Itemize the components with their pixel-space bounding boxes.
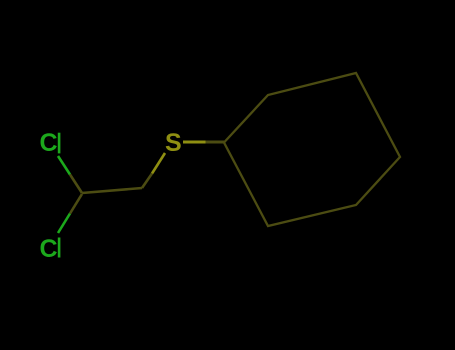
bond S-ring (carbon half) bbox=[206, 141, 225, 144]
svg-text:C: C bbox=[40, 129, 58, 157]
benzene ring (projected hexagon) bbox=[224, 73, 400, 226]
bond Cl2-C (dark half, carbon side) bbox=[70, 194, 82, 214]
bond C=C (vinyl, carbon-carbon) bbox=[82, 188, 142, 193]
bond Cl1-C (green half, chlorine side) bbox=[58, 156, 70, 175]
bond Cl2-C (green half, chlorine side) bbox=[58, 214, 70, 234]
bond S-ring (sulfur half) bbox=[183, 141, 206, 144]
bond Cl1-C (dark half, carbon side) bbox=[70, 175, 82, 194]
bond S-CH (sulfur half) bbox=[152, 153, 165, 174]
svg-text:C: C bbox=[40, 235, 58, 263]
chlorine label Cl (bottom): l glyph bbox=[58, 238, 61, 258]
svg-text:S: S bbox=[165, 129, 182, 157]
bond S-CH (carbon half) bbox=[142, 174, 152, 189]
chlorine label Cl (top): l glyph bbox=[58, 133, 61, 154]
